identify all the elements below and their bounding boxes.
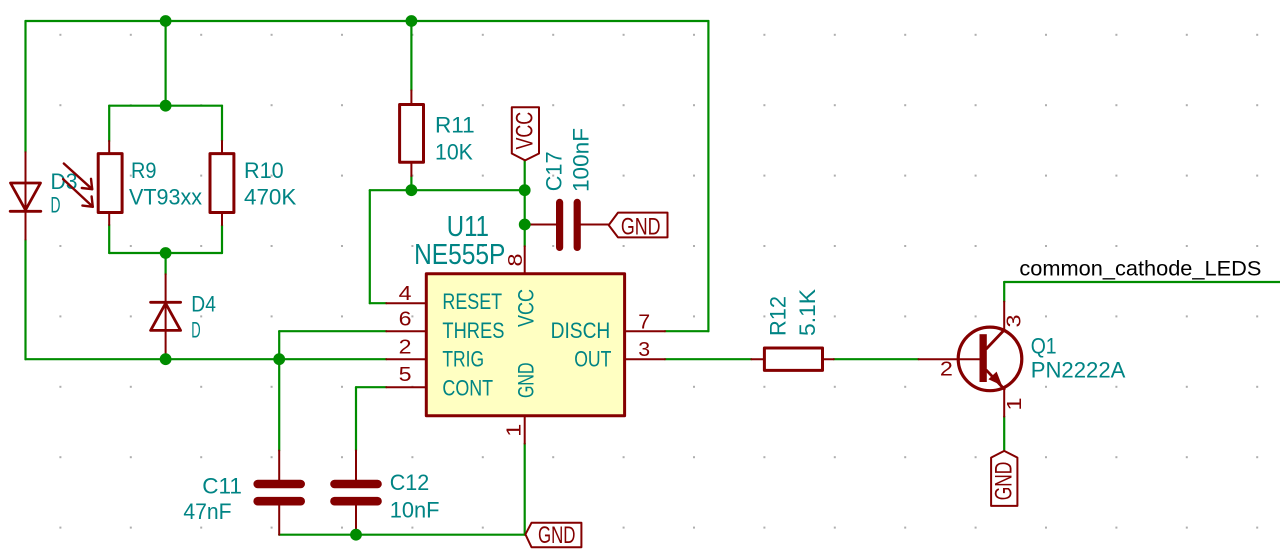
wire VCC row [370, 189, 525, 191]
wire C11 drop [278, 359, 280, 450]
svg-text:VT93xx: VT93xx [129, 185, 203, 210]
diode D3 [10, 152, 41, 239]
pin 5 CONT stub [386, 386, 426, 388]
svg-text:D: D [51, 192, 61, 217]
wire R9 bottom lead [108, 225, 110, 253]
wire VCC to C17 row [524, 190, 526, 224]
wire R10 bottom lead [221, 225, 223, 253]
svg-text:3: 3 [638, 339, 650, 361]
node junction VCC flag / VCC row [519, 184, 531, 196]
svg-text:10nF: 10nF [390, 498, 440, 523]
wire R9R10 feed from top rail [165, 21, 167, 106]
wire R11 top lead [410, 21, 412, 90]
wire R9R10 top rail [109, 105, 222, 107]
svg-text:CONT: CONT [442, 376, 493, 401]
node junction R9R10 top [160, 100, 172, 112]
svg-text:common_cathode_LEDS: common_cathode_LEDS [1019, 258, 1261, 281]
node junction top rail / R11 [406, 15, 418, 27]
wire Q1 collector up [1003, 282, 1005, 302]
svg-text:8: 8 [505, 254, 527, 267]
svg-text:PN2222A: PN2222A [1031, 358, 1126, 383]
node junction R9R10 bottom / D4 [160, 247, 172, 259]
svg-text:C11: C11 [202, 474, 242, 499]
svg-text:VCC: VCC [512, 112, 539, 150]
svg-text:470K: 470K [244, 185, 296, 210]
pin 4 RESET stub [386, 302, 426, 304]
wire THRES drop to TRIG rail [278, 331, 280, 359]
transistor Q1 [919, 302, 1022, 417]
node junction D4 / TRIG rail [160, 353, 172, 365]
wire bottom-left rail to TRIG [26, 358, 387, 360]
svg-text:R9: R9 [131, 158, 157, 183]
wire R12 to Q1 base [834, 358, 919, 360]
pin 3 OUT stub [625, 358, 665, 360]
wire Q1 emitter down [1003, 417, 1005, 450]
pin 1 GND stub [524, 416, 526, 444]
svg-text:C12: C12 [390, 470, 430, 495]
svg-text:GND: GND [514, 363, 539, 399]
resistor R10 [210, 141, 234, 225]
capacitor C12 [335, 451, 378, 535]
svg-text:6: 6 [399, 309, 412, 331]
IC U11 NE555P body [426, 274, 624, 416]
resistor R12 [751, 348, 834, 370]
pin 8 VCC stub [524, 246, 526, 273]
svg-text:4: 4 [399, 283, 412, 305]
diode D4 [151, 274, 181, 359]
wire common_cathode_LEDS rail [1004, 281, 1280, 283]
node junction C12 / ground rail [350, 529, 362, 541]
wire R9 top lead [108, 106, 110, 141]
wire pin1 down to ground rail [524, 444, 526, 535]
svg-text:7: 7 [638, 312, 650, 334]
wire VCC top rail [26, 20, 709, 22]
svg-text:OUT: OUT [574, 346, 611, 371]
wire DISCH link [665, 330, 708, 332]
wire C12 drop [355, 387, 357, 450]
pin 7 DISCH stub [625, 330, 665, 332]
node junction C17 / pin8 [519, 219, 531, 231]
wire left rail upper (to D3 anode) [24, 21, 26, 152]
svg-text:RESET: RESET [442, 289, 502, 314]
ground flag GND at Q1 emitter [991, 451, 1017, 506]
svg-text:D4: D4 [191, 291, 216, 316]
svg-text:GND: GND [990, 462, 1017, 501]
svg-text:R12: R12 [765, 296, 790, 336]
wire R11 bottom lead [410, 176, 412, 190]
svg-text:3: 3 [1004, 315, 1026, 328]
ground flag GND at C17 [609, 213, 668, 238]
node junction THRES / TRIG rail [273, 353, 285, 365]
resistor R11 [400, 90, 424, 176]
svg-text:GND: GND [621, 213, 661, 240]
pin 6 THRES stub [386, 330, 426, 332]
wire bottom ground rail [279, 534, 525, 536]
capacitor C11 [258, 451, 301, 535]
node junction R11 bottom / VCC row [406, 184, 418, 196]
svg-text:D: D [191, 318, 200, 343]
svg-text:1: 1 [503, 424, 525, 437]
svg-text:DISCH: DISCH [551, 318, 611, 343]
power flag VCC [512, 107, 539, 160]
wire OUT to R12 [665, 358, 751, 360]
wire VCC flag drop [524, 160, 526, 190]
svg-text:2: 2 [940, 359, 953, 381]
svg-text:10K: 10K [435, 140, 473, 165]
wire C17 left link [525, 223, 531, 225]
resistor R9 (photoresistor) [63, 141, 122, 225]
wire D4 top link [165, 253, 167, 274]
svg-text:2: 2 [399, 336, 412, 358]
wire CONT [356, 386, 386, 388]
svg-text:C17: C17 [542, 151, 567, 191]
svg-text:VCC: VCC [514, 289, 539, 327]
svg-text:NE555P: NE555P [414, 239, 505, 271]
svg-text:Q1: Q1 [1031, 334, 1057, 359]
svg-text:5.1K: 5.1K [795, 289, 820, 336]
wire right drop to DISCH [707, 21, 709, 331]
svg-text:GND: GND [538, 522, 576, 549]
svg-text:47nF: 47nF [183, 499, 231, 524]
wire R10 top lead [221, 106, 223, 141]
wire R9R10 bottom rail [109, 252, 222, 254]
wire left rail lower (from D3 cathode) [24, 240, 26, 360]
pin 2 TRIG stub [386, 358, 426, 360]
wire THRES [279, 330, 386, 332]
svg-text:R10: R10 [244, 158, 284, 183]
svg-text:5: 5 [399, 364, 412, 386]
ground flag GND at bottom rail [525, 523, 581, 547]
node junction top rail / R9R10 feed [160, 15, 172, 27]
wire C17 row to pin8 [524, 225, 526, 247]
wire RESET drop [369, 190, 371, 303]
capacitor C17 [531, 202, 609, 247]
wire RESET link [370, 302, 387, 304]
svg-text:R11: R11 [435, 113, 475, 138]
svg-text:THRES: THRES [442, 318, 504, 343]
svg-text:100nF: 100nF [569, 128, 594, 192]
svg-text:TRIG: TRIG [442, 346, 484, 371]
svg-text:1: 1 [1004, 398, 1026, 411]
